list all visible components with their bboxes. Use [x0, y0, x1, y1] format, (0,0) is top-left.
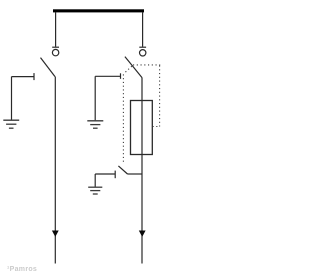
svg-text:¹Pamros: ¹Pamros [7, 266, 37, 273]
